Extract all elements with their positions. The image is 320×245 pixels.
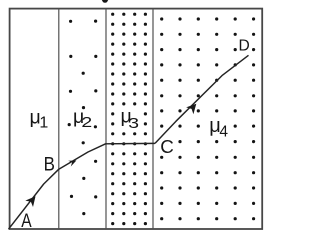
arrowhead on A-B bbox=[25, 196, 35, 207]
svg-text:3: 3 bbox=[128, 115, 139, 132]
interface mu3/mu4 bbox=[152, 9, 154, 229]
ray B-C bbox=[59, 143, 155, 169]
mu2 dots bbox=[68, 20, 98, 216]
mu3 dots bbox=[111, 13, 147, 226]
arrowhead on B-C bbox=[68, 161, 76, 167]
ray C-D bbox=[155, 55, 249, 143]
top-edge artifact bbox=[102, 0, 108, 3]
svg-text:2: 2 bbox=[81, 114, 92, 131]
svg-text:A: A bbox=[21, 211, 32, 232]
outer box bbox=[10, 9, 263, 229]
interface mu1/mu2 bbox=[58, 9, 60, 229]
ray A-B bbox=[9, 169, 59, 229]
arrowhead on C-D bbox=[186, 104, 196, 114]
svg-text:4: 4 bbox=[219, 123, 228, 140]
svg-text:B: B bbox=[44, 153, 55, 175]
svg-text:D: D bbox=[239, 38, 250, 55]
svg-text:1: 1 bbox=[39, 115, 48, 132]
svg-text:C: C bbox=[160, 136, 174, 157]
mu4 dots bbox=[160, 17, 255, 220]
interface mu2/mu3 bbox=[105, 9, 107, 229]
